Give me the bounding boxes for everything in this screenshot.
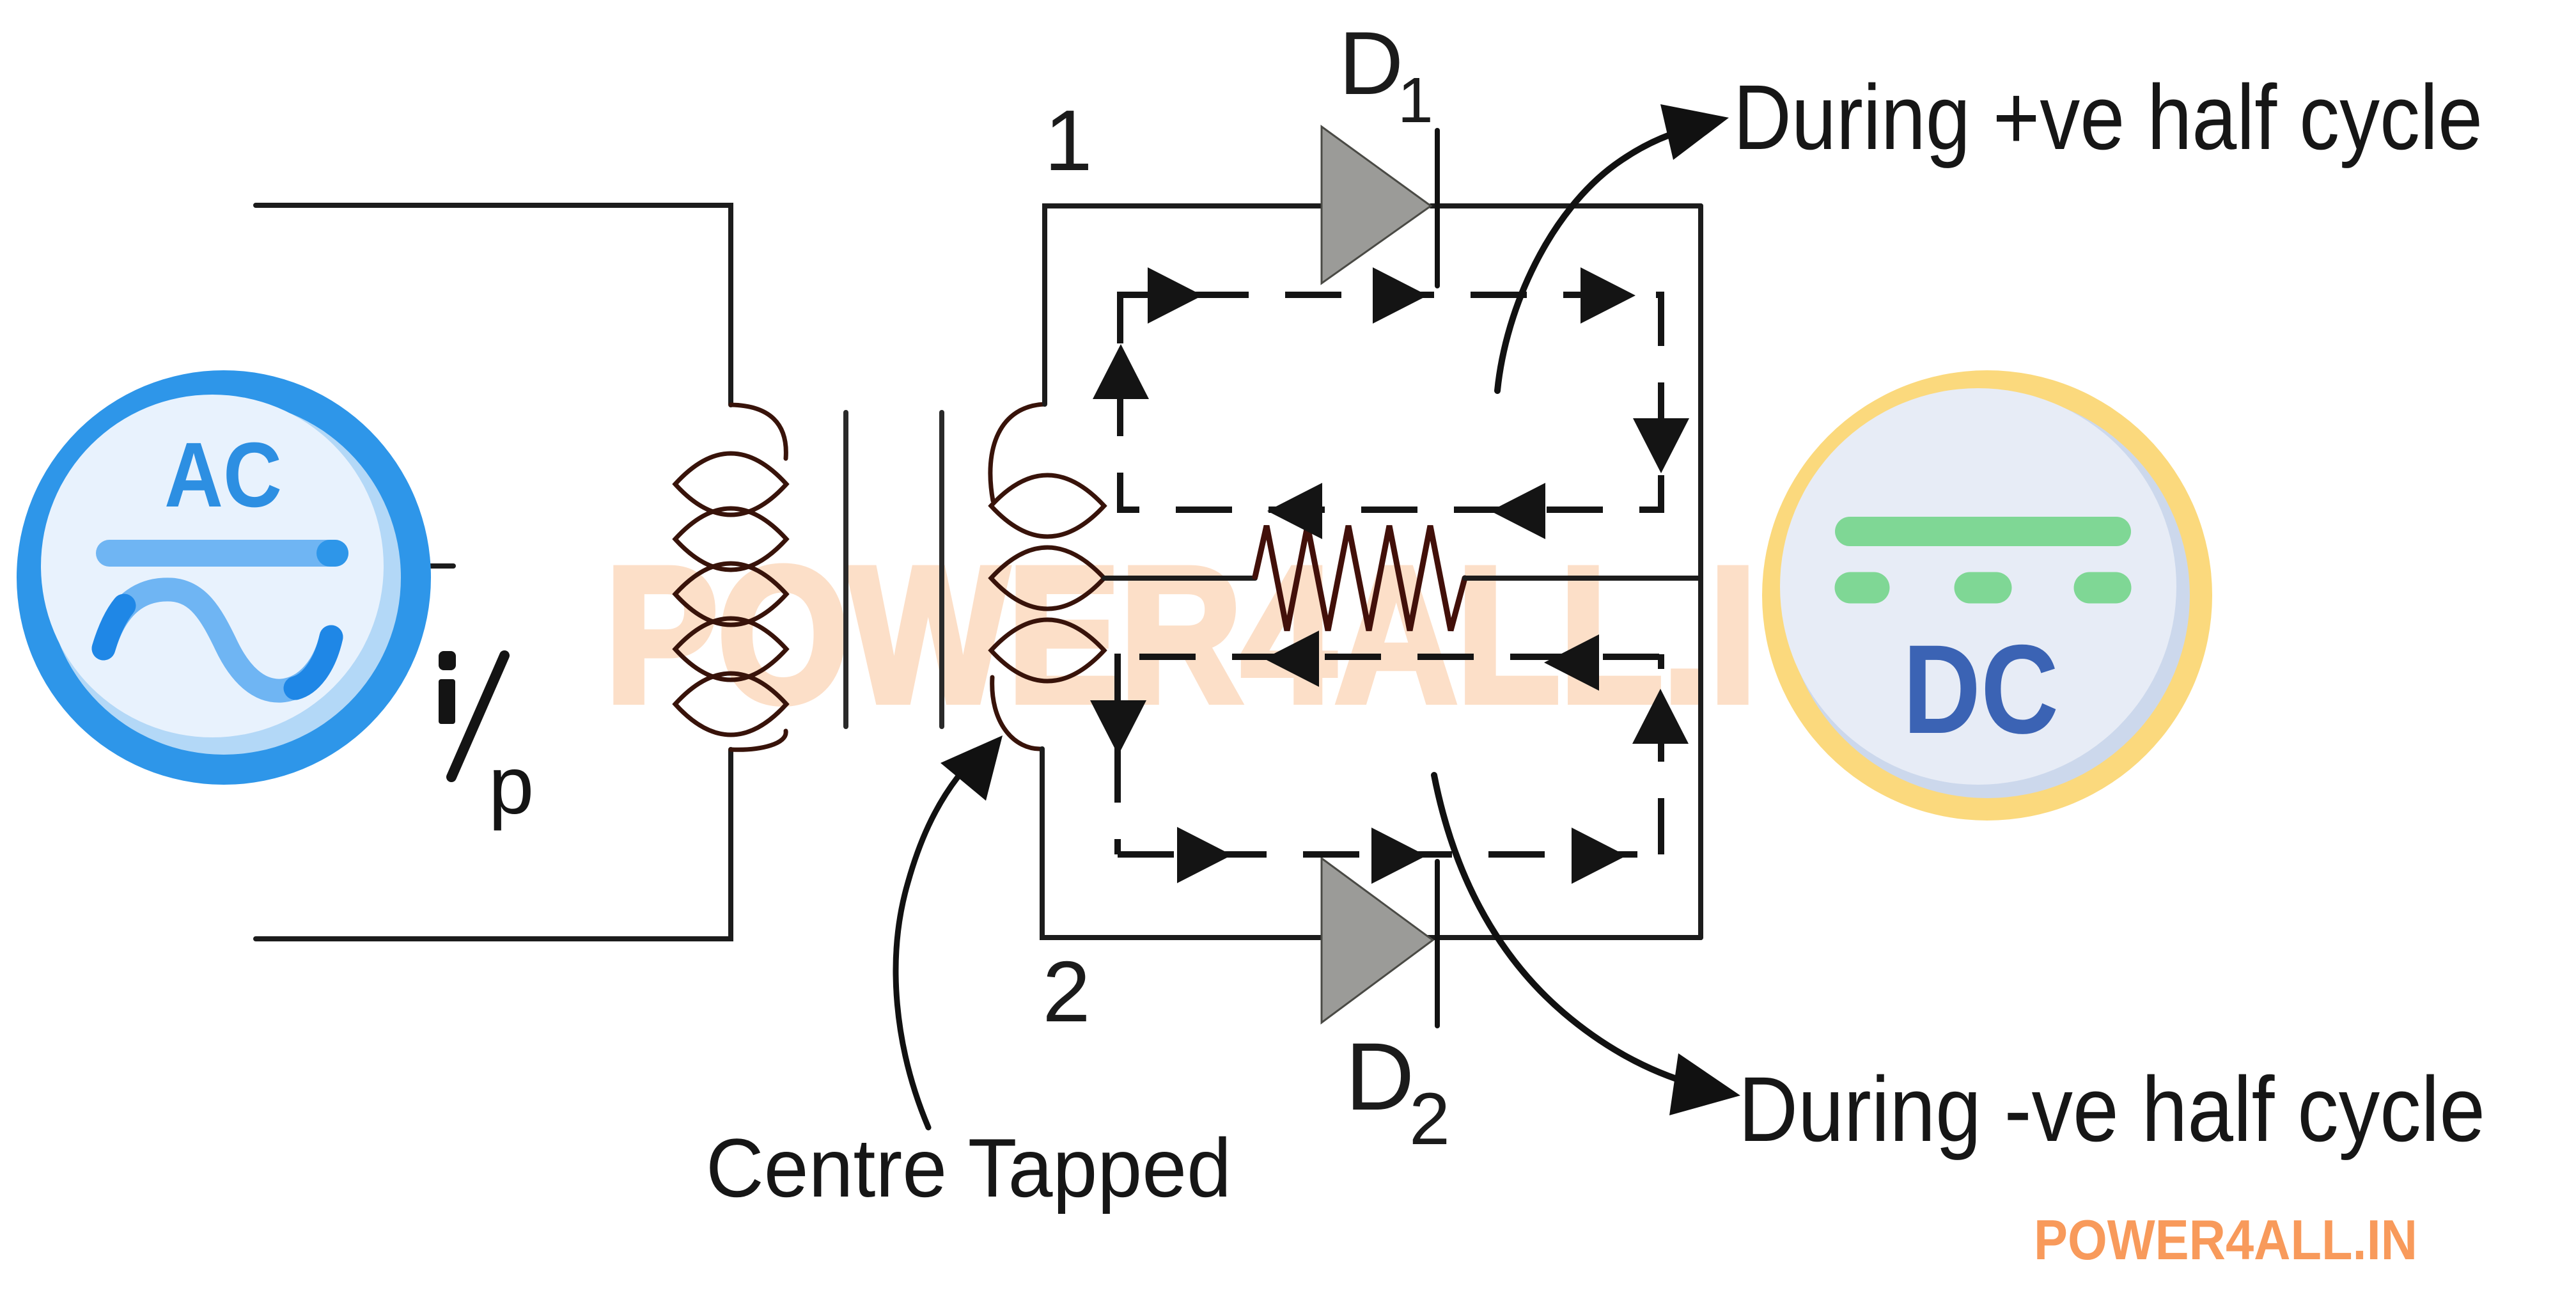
-ve path arrows bottom (right) bbox=[1177, 827, 1627, 884]
node 2 label bbox=[1042, 943, 1090, 1040]
-ve path arrow left (down) bbox=[1090, 700, 1146, 755]
svg-text:During +ve half cycle: During +ve half cycle bbox=[1733, 66, 2483, 169]
svg-text:During -ve half cycle: During -ve half cycle bbox=[1738, 1058, 2485, 1161]
svg-text:D: D bbox=[1339, 13, 1403, 113]
terminal stub near AC source bbox=[430, 563, 453, 569]
node 1 label bbox=[1044, 92, 1092, 189]
svg-text:AC: AC bbox=[164, 423, 282, 526]
+ve path arrows bottom (left) bbox=[1267, 483, 1545, 539]
label D1 bbox=[1339, 13, 1433, 136]
resistor RL bbox=[1255, 526, 1465, 631]
wire right rail bbox=[1698, 206, 1703, 938]
wire load to right rail bbox=[1465, 576, 1701, 581]
secondary coil bbox=[990, 404, 1104, 749]
DC output icon bbox=[1762, 370, 2212, 821]
label i/p bbox=[439, 651, 534, 831]
label Centre Tapped bbox=[706, 1121, 1231, 1214]
svg-text:1: 1 bbox=[1044, 92, 1092, 189]
-ve path arrow right (up) bbox=[1632, 689, 1689, 744]
wire terminal 1 to D1 anode bbox=[1045, 206, 1322, 404]
svg-text:DC: DC bbox=[1903, 618, 2059, 760]
+ve path arrow left (up) bbox=[1093, 344, 1149, 399]
label During -ve half cycle bbox=[1738, 1058, 2485, 1161]
primary coil bbox=[675, 405, 786, 750]
annotation arrow during -ve bbox=[1434, 775, 1740, 1115]
dashed +ve current loop bbox=[1120, 295, 1661, 510]
+ve path arrows top (right) bbox=[1148, 267, 1635, 324]
svg-text:1: 1 bbox=[1398, 65, 1433, 136]
svg-text:Centre Tapped: Centre Tapped bbox=[706, 1121, 1231, 1214]
wire D1 cathode to right rail bbox=[1431, 203, 1701, 208]
diode D1 bbox=[1322, 127, 1437, 286]
+ve path arrow right (down) bbox=[1633, 418, 1689, 473]
label During +ve half cycle bbox=[1733, 66, 2483, 169]
transformer core bbox=[846, 412, 942, 727]
diode D2 bbox=[1322, 858, 1437, 1026]
wire primary top bbox=[256, 205, 731, 405]
dashed -ve current loop top line bbox=[1139, 654, 1661, 660]
svg-text:POWER4ALL.IN: POWER4ALL.IN bbox=[2034, 1208, 2417, 1271]
-ve path arrows top (left) bbox=[1264, 631, 1599, 691]
svg-text:2: 2 bbox=[1042, 943, 1090, 1040]
label D2 bbox=[1345, 1023, 1450, 1160]
dashed -ve current loop right side bbox=[1658, 654, 1664, 854]
annotation arrow during +ve bbox=[1497, 104, 1729, 391]
annotation arrow centre tapped bbox=[896, 735, 1003, 1127]
wire terminal 2 bbox=[1042, 749, 1701, 938]
wire centre tap to load bbox=[1104, 576, 1255, 581]
watermark POWER4ALL.I bbox=[605, 527, 1756, 742]
svg-text:p: p bbox=[488, 740, 534, 831]
dashed -ve current loop left side bbox=[1114, 654, 1121, 854]
AC source icon bbox=[17, 370, 431, 785]
svg-text:D: D bbox=[1345, 1023, 1414, 1130]
wire primary bottom bbox=[256, 750, 731, 939]
dashed -ve current loop bottom side bbox=[1118, 851, 1661, 858]
svg-text:2: 2 bbox=[1409, 1078, 1450, 1160]
logo POWER4ALL.IN bbox=[2034, 1208, 2417, 1271]
